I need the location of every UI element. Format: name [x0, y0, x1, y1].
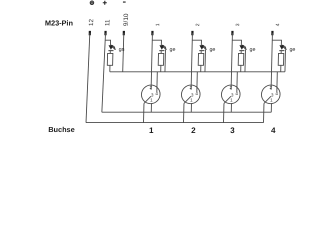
wire PE vertical pin 12: [86, 33, 90, 123]
svg-text:11: 11: [104, 19, 111, 26]
terminal pin 11: [104, 31, 106, 35]
socket 2 pin digits: [189, 85, 199, 103]
svg-text:1: 1: [230, 98, 233, 103]
svg-text:12: 12: [88, 19, 95, 26]
socket M12 Buchse 1: [141, 85, 160, 104]
svg-text:2: 2: [149, 85, 152, 90]
LED D3: [239, 45, 244, 51]
svg-text:4: 4: [271, 126, 276, 135]
wire LED branch D4: [272, 40, 282, 53]
wire signal 1 vertical: [151, 33, 152, 90]
svg-text:9/10: 9/10: [123, 13, 130, 26]
wire PE diagonal socket 3 pin 3: [224, 96, 231, 103]
terminal pin 3: [231, 31, 233, 35]
svg-text:2: 2: [191, 126, 196, 135]
wire minus bus: [110, 71, 285, 73]
resistor D3: [238, 53, 244, 71]
wire plus stub socket 1 pin 1: [150, 103, 152, 112]
wire PE diagonal socket 4 pin 3: [264, 96, 271, 103]
LED D0 power: [108, 45, 113, 51]
wire minus drop to socket 4 pin 4: [276, 72, 278, 93]
svg-text:2: 2: [229, 85, 232, 90]
terminal pin 2: [191, 31, 193, 35]
resistor D1: [158, 53, 164, 71]
wire PE drop socket 2: [183, 103, 185, 122]
wire PE diagonal socket 1 pin 3: [144, 96, 151, 103]
svg-text:gn: gn: [119, 47, 125, 53]
wire plus vertical pin 11: [102, 33, 106, 112]
wire LED cathode to minus bus D2: [204, 50, 207, 72]
minus symbol: [123, 1, 126, 3]
wire signal 3 vertical: [231, 33, 232, 90]
wire signal 2 vertical: [191, 33, 192, 90]
svg-text:1: 1: [270, 98, 273, 103]
resistor D4: [278, 53, 284, 71]
svg-text:1: 1: [149, 126, 154, 135]
svg-text:2: 2: [195, 23, 201, 26]
svg-text:3: 3: [235, 23, 241, 26]
svg-text:4: 4: [275, 23, 281, 26]
terminal pin 1: [151, 31, 153, 35]
wire minus drop to socket 3 pin 4: [236, 72, 238, 93]
svg-text:1: 1: [190, 98, 193, 103]
wire plus stub socket 3 pin 1: [230, 103, 232, 112]
svg-text:Buchse: Buchse: [48, 125, 75, 134]
wire plus stub socket 4 pin 1: [270, 103, 272, 112]
resistor D0 power: [107, 53, 113, 71]
svg-text:2: 2: [269, 85, 272, 90]
socket M12 Buchse 3: [221, 85, 240, 104]
LED D4: [279, 45, 284, 51]
svg-text:ge: ge: [289, 47, 295, 53]
wire plus stub socket 2 pin 1: [190, 103, 192, 112]
terminal pin 12: [89, 31, 91, 35]
wire PE diagonal socket 2 pin 3: [184, 96, 191, 103]
wire PE drop socket 4: [263, 103, 265, 122]
wire signal 4 vertical: [271, 33, 272, 90]
PE symbol: [90, 1, 95, 6]
socket M12 Buchse 4: [261, 85, 280, 104]
resistor D2: [198, 53, 204, 71]
svg-text:4: 4: [235, 91, 238, 96]
wire LED branch D1: [152, 40, 162, 53]
svg-text:2: 2: [189, 85, 192, 90]
wire minus drop to socket 1 pin 4: [156, 72, 158, 93]
plus symbol: [103, 1, 107, 5]
wire PE bus: [86, 122, 264, 124]
terminal pin 9/10: [123, 31, 125, 35]
wire PE drop socket 3: [223, 103, 225, 122]
svg-text:4: 4: [155, 91, 158, 96]
wire LED cathode to minus bus D3: [244, 50, 247, 72]
socket 1 pin digits: [149, 85, 159, 103]
svg-text:ge: ge: [209, 47, 215, 53]
wire plus bus: [102, 111, 271, 113]
svg-text:ge: ge: [249, 47, 255, 53]
wire LED branch D3: [232, 40, 242, 53]
svg-text:3: 3: [230, 126, 235, 135]
svg-text:M23-Pin: M23-Pin: [45, 19, 73, 28]
wire LED branch D0 power: [105, 40, 111, 53]
wire minus drop to socket 2 pin 4: [196, 72, 198, 93]
wire LED cathode to minus bus D1: [164, 50, 167, 72]
LED D1: [159, 45, 164, 51]
svg-text:1: 1: [150, 98, 153, 103]
socket 4 pin digits: [269, 85, 279, 103]
socket M12 Buchse 2: [181, 85, 200, 104]
wire LED cathode to minus bus D4: [284, 50, 287, 72]
LED D2: [199, 45, 204, 51]
svg-text:4: 4: [195, 91, 198, 96]
terminal pin 4: [271, 31, 273, 35]
wire PE drop socket 1: [143, 103, 145, 122]
svg-text:ge: ge: [169, 47, 175, 53]
wire minus vertical pin 9/10: [123, 33, 124, 72]
socket 3 pin digits: [229, 85, 239, 103]
svg-text:1: 1: [155, 23, 161, 26]
svg-text:4: 4: [275, 91, 278, 96]
wire LED branch D2: [192, 40, 202, 53]
